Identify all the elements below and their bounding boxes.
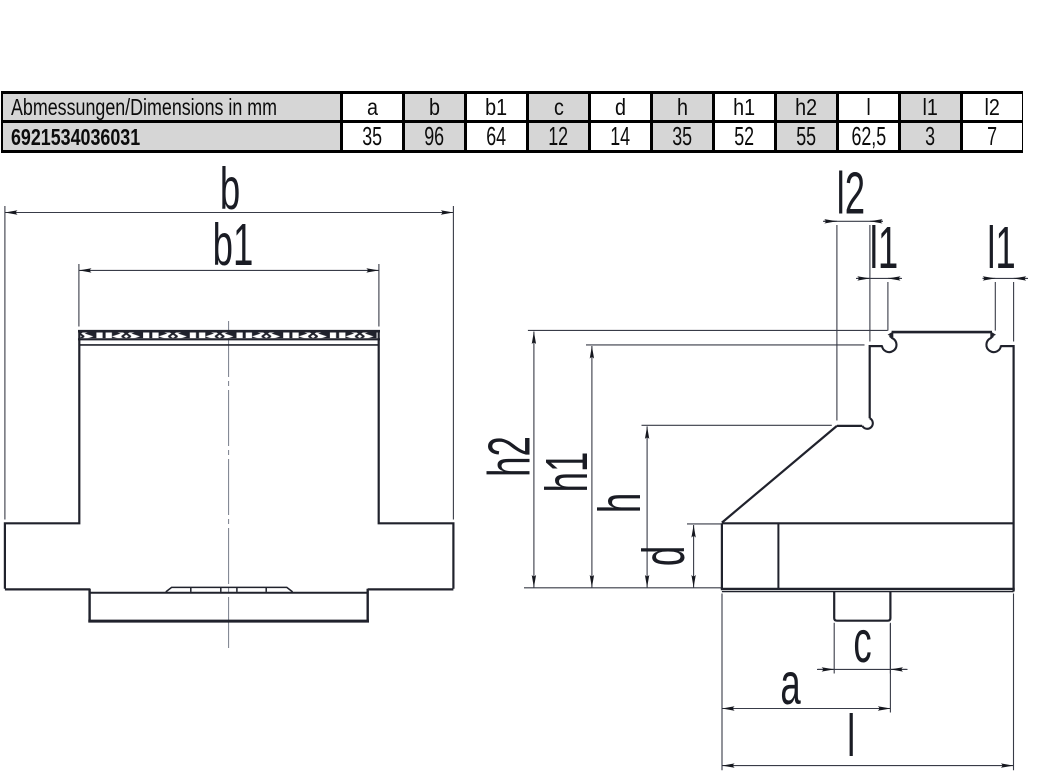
guide tongue detail bbox=[166, 587, 293, 592]
svg-text:c: c bbox=[853, 610, 871, 675]
dimension b1 bbox=[79, 264, 379, 327]
left shoulder surface bbox=[870, 345, 883, 347]
dimension c bbox=[817, 623, 908, 674]
bottom edge bbox=[721, 588, 1015, 591]
dimension h1 bbox=[591, 346, 593, 588]
svg-text:l1: l1 bbox=[870, 216, 898, 281]
band lower edge line bbox=[79, 344, 379, 346]
dimension l2 bbox=[823, 221, 883, 420]
base block top edge bbox=[90, 592, 368, 594]
svg-text:l1: l1 bbox=[987, 216, 1015, 281]
base block bottom bbox=[88, 620, 369, 623]
extension lines h2/h1/h/d bbox=[524, 330, 888, 587]
right lead-in barb bbox=[990, 331, 996, 337]
guide tenon bbox=[834, 592, 890, 621]
dimension h bbox=[646, 426, 648, 587]
svg-text:h2: h2 bbox=[478, 436, 543, 477]
dimension l1 (left) bbox=[856, 278, 902, 330]
dimension a bbox=[722, 594, 890, 771]
svg-text:l: l bbox=[847, 704, 855, 769]
serrated clamping band bbox=[78, 331, 380, 339]
right grip notch circle bbox=[986, 336, 1001, 352]
jaw body outline bbox=[5, 331, 454, 589]
top surface bbox=[892, 331, 992, 334]
dimension d bbox=[693, 525, 695, 588]
svg-text:h1: h1 bbox=[535, 452, 600, 493]
left grip notch circle bbox=[882, 336, 897, 352]
dimension b bbox=[5, 206, 454, 520]
flange bottom edges bbox=[5, 588, 454, 590]
left lead-in barb bbox=[888, 331, 894, 337]
flange top bbox=[722, 522, 1014, 524]
relief notch at step bbox=[862, 418, 873, 429]
bottom lip line bbox=[722, 591, 1014, 593]
right edge bbox=[1012, 345, 1014, 592]
right shoulder surface bbox=[1001, 345, 1014, 347]
left vertical edge bbox=[869, 345, 871, 418]
inner edge line bbox=[777, 523, 779, 589]
svg-text:d: d bbox=[632, 546, 697, 566]
dimension h2 bbox=[533, 332, 535, 588]
svg-text:l2: l2 bbox=[837, 162, 865, 227]
dimension l1 (right) bbox=[983, 278, 1029, 341]
svg-text:a: a bbox=[780, 652, 801, 717]
step surface bbox=[837, 425, 862, 427]
svg-text:b1: b1 bbox=[213, 213, 254, 278]
dimension l bbox=[722, 594, 1014, 771]
chamfer diagonal bbox=[722, 426, 837, 523]
dimensions table bbox=[1, 91, 1023, 152]
svg-text:h: h bbox=[588, 493, 653, 513]
base block sides bbox=[90, 589, 368, 622]
flange left edge bbox=[721, 523, 723, 589]
centerline bbox=[228, 321, 230, 648]
